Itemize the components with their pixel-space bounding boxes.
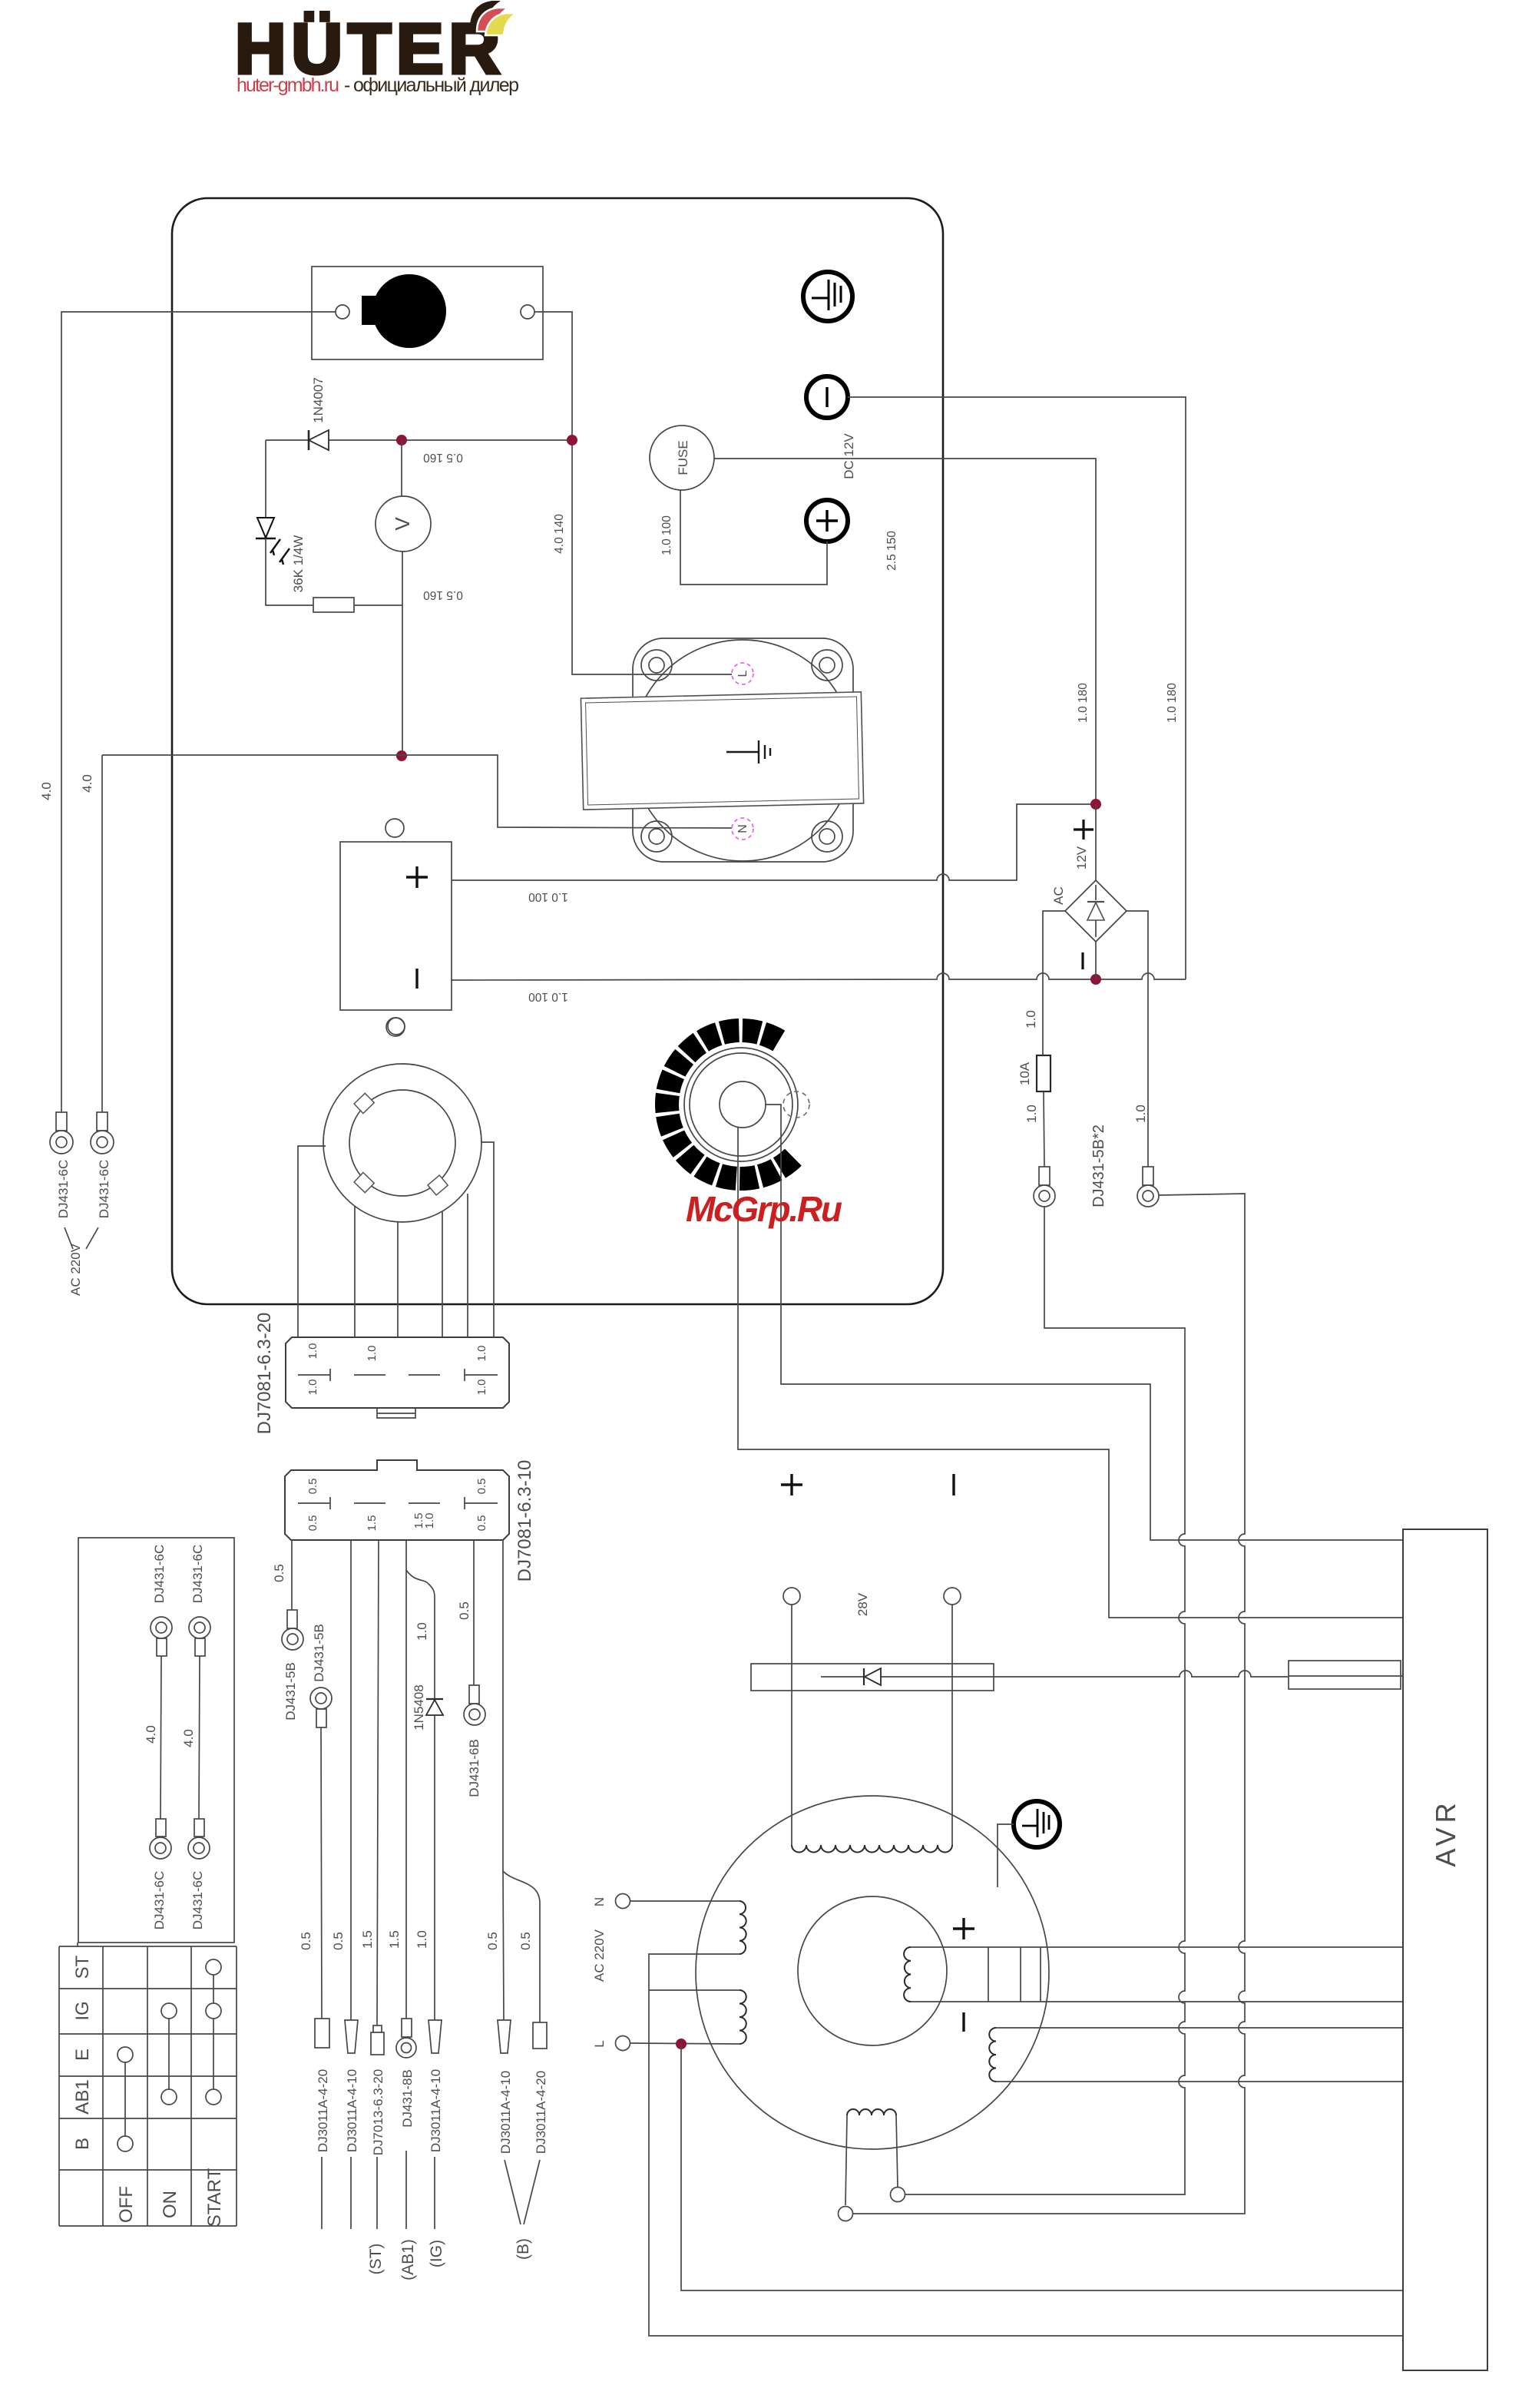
DC socket minus mark bbox=[415, 969, 418, 989]
svg-text:L: L bbox=[592, 2040, 607, 2047]
logo yellow band bbox=[485, 13, 516, 35]
wire breaker pole 1 to AVR bbox=[738, 1128, 1403, 1618]
wire ground to stator bbox=[998, 1824, 1014, 1887]
wire minus terminal right bbox=[848, 397, 1186, 979]
svg-text:1.0: 1.0 bbox=[306, 1380, 319, 1396]
START contact ST bbox=[206, 1959, 221, 1975]
wire junction A to voltmeter bbox=[401, 440, 402, 496]
terminal DJ3011A-4-20 (7) bbox=[533, 2022, 547, 2049]
fuse 10A body bbox=[1037, 1055, 1051, 1091]
OFF contact E bbox=[117, 2047, 133, 2062]
svg-text:10A: 10A bbox=[1017, 1062, 1032, 1085]
AC outlet notch 3 bbox=[428, 1175, 448, 1195]
svg-text:1N5408: 1N5408 bbox=[412, 1684, 426, 1731]
aux winding R1 coil bbox=[989, 2028, 996, 2082]
svg-text:DJ3011A-4-20: DJ3011A-4-20 bbox=[534, 2071, 548, 2154]
breaker dashed circle bbox=[783, 1091, 809, 1118]
terminal DJ3011A-4-20 (1) bbox=[315, 2019, 329, 2048]
svg-text:0.5: 0.5 bbox=[475, 1479, 488, 1495]
capacitor strip body bbox=[751, 1664, 994, 1691]
svg-text:(IG): (IG) bbox=[428, 2240, 445, 2267]
svg-text:0.5: 0.5 bbox=[299, 1932, 313, 1950]
svg-text:1N4007: 1N4007 bbox=[311, 377, 326, 423]
wire cap2 to stator winding bbox=[951, 1605, 953, 1845]
exciter terminal circle left bbox=[839, 2207, 853, 2221]
terminal DJ3011A-4-10 (6) bbox=[498, 2020, 511, 2053]
svg-text:0.5 160: 0.5 160 bbox=[423, 451, 463, 464]
bridge minus mark bbox=[1081, 952, 1084, 969]
leader line 5 bbox=[434, 2157, 435, 2229]
START contact IG bbox=[206, 2003, 221, 2019]
AVR box bbox=[1403, 1529, 1487, 2370]
svg-text:0.5 160: 0.5 160 bbox=[423, 588, 463, 601]
svg-text:4.0 140: 4.0 140 bbox=[553, 514, 566, 554]
svg-text:DJ431-6C: DJ431-6C bbox=[152, 1545, 167, 1604]
breaker inner rim circle bbox=[690, 1053, 792, 1156]
jumper1 bottom ring DJ431-6C bbox=[150, 1819, 171, 1859]
svg-text:ST: ST bbox=[72, 1955, 93, 1979]
ring terminal DJ431-5B 1 bbox=[282, 1610, 303, 1650]
control panel outline bbox=[172, 198, 943, 1304]
bridge diode symbol bbox=[1087, 885, 1104, 937]
connector1 slot labels 1.0 row1 bbox=[306, 1343, 488, 1362]
aux winding L2 coil bbox=[739, 1990, 746, 2044]
connector2 slot labels row2 bbox=[306, 1513, 488, 1532]
bridge rectifier BR1 body bbox=[1065, 880, 1127, 942]
svg-text:L: L bbox=[736, 670, 749, 677]
svg-text:DJ7081-6.3-20: DJ7081-6.3-20 bbox=[254, 1313, 275, 1435]
exciter terminal circle right bbox=[891, 2188, 905, 2202]
svg-text:1.0: 1.0 bbox=[415, 1622, 429, 1641]
bridge plus mark bbox=[1074, 820, 1094, 840]
svg-text:4.0: 4.0 bbox=[181, 1729, 196, 1747]
svg-text:AC 220V: AC 220V bbox=[68, 1243, 83, 1296]
transformer core bar bbox=[581, 692, 863, 810]
aux winding L1 top lead bbox=[630, 1900, 739, 1902]
svg-text:1.0 180: 1.0 180 bbox=[1166, 683, 1179, 723]
logo red band bbox=[477, 8, 508, 31]
svg-text:START: START bbox=[204, 2168, 225, 2227]
leader line 4 bbox=[405, 2151, 407, 2229]
B bracket slashes bbox=[505, 2160, 540, 2224]
svg-text:DJ431-6B: DJ431-6B bbox=[467, 1739, 481, 1797]
svg-text:DJ3011A-4-20: DJ3011A-4-20 bbox=[316, 2069, 330, 2152]
wire conn2 pin2 bbox=[350, 1540, 352, 2020]
LED branch wire bbox=[265, 440, 266, 518]
logo dark flame swoosh bbox=[470, 1, 501, 25]
svg-text:4.0: 4.0 bbox=[80, 774, 94, 793]
diode 1N5408 bbox=[426, 1699, 443, 1715]
svg-text:B: B bbox=[72, 2138, 93, 2150]
AC outlet notch 2 bbox=[354, 1173, 374, 1193]
field diode symbol bbox=[864, 1668, 881, 1685]
resistor R1 36K bbox=[313, 598, 354, 612]
svg-text:2.5 150: 2.5 150 bbox=[885, 531, 898, 571]
svg-text:DJ431-6C: DJ431-6C bbox=[152, 1871, 167, 1930]
exciter left lead bbox=[845, 2115, 847, 2205]
svg-text:V: V bbox=[391, 517, 414, 531]
svg-text:12V: 12V bbox=[1074, 846, 1089, 869]
wire junction C to transformer N bbox=[102, 755, 732, 828]
breaker outer circle bbox=[684, 1048, 798, 1161]
rotor brush bottom lead bbox=[911, 2001, 1403, 2002]
svg-text:DJ431-6C: DJ431-6C bbox=[190, 1545, 205, 1604]
aux winding R1 top lead bbox=[996, 2027, 1403, 2029]
wire ring B down to exciter terminal bbox=[852, 1194, 1245, 2214]
svg-text:0.5: 0.5 bbox=[457, 1601, 471, 1620]
junction dot L2 bbox=[676, 2039, 687, 2049]
ring terminal DJ431-5B A bbox=[1034, 1167, 1055, 1207]
wire branch pin6 to terminal 7 bbox=[503, 1871, 540, 2022]
svg-text:E: E bbox=[72, 2049, 93, 2061]
svg-text:1.0: 1.0 bbox=[1024, 1010, 1038, 1028]
svg-text:DJ3011A-4-10: DJ3011A-4-10 bbox=[345, 2069, 359, 2152]
wire ring2 to terminal B1 bbox=[321, 1727, 322, 2019]
DC socket plus mark bbox=[406, 866, 428, 888]
wire breaker pole 2 to AVR bbox=[766, 1105, 1403, 1540]
ring terminal DJ431-6C (AC 220V line 1) bbox=[50, 1112, 73, 1154]
minus mark above capacitor bbox=[952, 1474, 955, 1495]
aux winding L1 bottom lead bbox=[649, 1954, 1403, 2336]
AC outlet socket inner circle bbox=[349, 1090, 455, 1196]
svg-text:DJ7013-6.3-20: DJ7013-6.3-20 bbox=[371, 2069, 385, 2155]
svg-text:1.0: 1.0 bbox=[1024, 1105, 1039, 1123]
svg-text:AC: AC bbox=[1051, 886, 1066, 905]
wire fuse to ring A bbox=[1044, 1091, 1044, 1167]
ring terminal DJ431-5B B bbox=[1137, 1167, 1159, 1207]
socket lead 2 bbox=[354, 1206, 356, 1337]
wire switch left to AC220V terminal bbox=[61, 312, 336, 1112]
generator ground terminal bbox=[1014, 1801, 1060, 1847]
junction dot C bbox=[396, 750, 407, 761]
bridge AC1 lead to 10A fuse bbox=[1043, 911, 1065, 1055]
connector1 slot labels 1.0 row2 bbox=[306, 1380, 488, 1396]
junction dot A bbox=[396, 435, 407, 445]
svg-text:(AB1): (AB1) bbox=[399, 2239, 417, 2280]
svg-text:1.5: 1.5 bbox=[366, 1515, 379, 1532]
panel ground terminal bbox=[803, 272, 852, 321]
svg-text:0.5: 0.5 bbox=[306, 1479, 319, 1495]
rotor minus mark bbox=[962, 2012, 964, 2032]
svg-text:0.5: 0.5 bbox=[485, 1932, 500, 1950]
bridge minus lead bbox=[1095, 942, 1097, 979]
svg-text:DJ431-6C: DJ431-6C bbox=[56, 1160, 71, 1219]
bridge plus lead bbox=[1095, 804, 1097, 880]
START contact AB1 bbox=[206, 2089, 221, 2105]
jumper2 top ring DJ431-6C bbox=[189, 1617, 210, 1656]
DC socket screw hole bottom bbox=[386, 1018, 405, 1036]
AC outlet notch 1 bbox=[354, 1093, 374, 1113]
ignition switch pin right bbox=[521, 305, 534, 319]
svg-text:AVR: AVR bbox=[1430, 1798, 1461, 1866]
svg-text:36K 1/4W: 36K 1/4W bbox=[291, 535, 306, 593]
jumper1 wire bbox=[160, 1656, 161, 1819]
svg-text:1.0: 1.0 bbox=[423, 1513, 436, 1529]
svg-text:DC 12V: DC 12V bbox=[842, 433, 856, 479]
wire plus terminal to fuse bbox=[680, 490, 827, 585]
svg-text:1.0 100: 1.0 100 bbox=[660, 515, 673, 555]
transformer mount hole TL bbox=[641, 650, 672, 681]
socket lead bracket left bbox=[298, 1146, 326, 1337]
OFF contact B bbox=[117, 2136, 133, 2151]
transformer T1 mounting plate bbox=[633, 638, 853, 862]
DC output socket block bbox=[340, 842, 452, 1010]
transformer ground symbol bbox=[726, 740, 770, 763]
wire conn2 pin5 bbox=[473, 1540, 475, 1685]
svg-text:4.0: 4.0 bbox=[144, 1725, 158, 1744]
node N dashed circle bbox=[732, 818, 753, 840]
ring terminal DJ431-5B 2 bbox=[310, 1688, 332, 1727]
fuse F1 circle bbox=[650, 426, 714, 490]
connector DJ7081-6.3-20 tab bbox=[377, 1408, 415, 1418]
bridge AC2 lead to ring B bbox=[1127, 911, 1148, 1167]
capacitor terminal circle 2 bbox=[944, 1588, 961, 1605]
brush strip right bbox=[1289, 1661, 1403, 1689]
wire branch pin4 S-curve to diode wire bbox=[406, 1570, 435, 1699]
key switch table grid bbox=[59, 1943, 237, 2226]
svg-text:McGrp.Ru: McGrp.Ru bbox=[686, 1189, 842, 1229]
svg-text:0.5: 0.5 bbox=[331, 1932, 346, 1950]
svg-text:huter-gmbh.ru: huter-gmbh.ru bbox=[237, 75, 339, 96]
connector DJ7081-6.3-10 body bbox=[285, 1460, 509, 1540]
wire resistor to voltmeter line bbox=[354, 604, 402, 606]
svg-text:N: N bbox=[592, 1897, 607, 1906]
svg-text:1.0: 1.0 bbox=[366, 1346, 379, 1362]
socket lead 3 bbox=[397, 1222, 399, 1337]
ring terminal DJ431-6C (AC 220V line 2) bbox=[91, 1112, 114, 1154]
svg-text:DJ7081-6.3-10: DJ7081-6.3-10 bbox=[515, 1460, 535, 1582]
svg-text:DJ431-6C: DJ431-6C bbox=[190, 1871, 205, 1930]
wire conn2 pin3 bbox=[377, 1540, 379, 2025]
svg-text:OFF: OFF bbox=[116, 2186, 137, 2223]
wire N line from junction to AC220V terminal 2 bbox=[101, 755, 103, 1112]
rotor winding coil bbox=[904, 1947, 911, 2002]
svg-text:1.0: 1.0 bbox=[475, 1380, 488, 1396]
svg-text:0.5: 0.5 bbox=[272, 1564, 286, 1582]
svg-text:1.0 100: 1.0 100 bbox=[528, 890, 568, 903]
wire junction to AVR bottom bbox=[681, 2044, 1403, 2290]
svg-text:0.5: 0.5 bbox=[306, 1515, 319, 1532]
exciter winding coil bbox=[847, 2109, 896, 2115]
svg-text:DJ431-6C: DJ431-6C bbox=[97, 1160, 111, 1219]
wire fuse to bridge junction bbox=[714, 459, 1096, 804]
svg-text:1.0: 1.0 bbox=[475, 1346, 488, 1362]
generator stator circle bbox=[696, 1796, 1049, 2149]
wire indicator branch top bbox=[266, 439, 572, 441]
svg-text:FUSE: FUSE bbox=[676, 440, 690, 475]
svg-text:DJ431-8B: DJ431-8B bbox=[400, 2069, 415, 2128]
svg-text:1.0: 1.0 bbox=[306, 1343, 319, 1360]
jumper2 bottom ring DJ431-6C bbox=[188, 1819, 210, 1859]
jumper2 wire bbox=[199, 1656, 200, 1819]
terminal DJ3011A-4-10 (2) bbox=[345, 2020, 358, 2053]
svg-text:DJ3011A-4-10: DJ3011A-4-10 bbox=[428, 2069, 443, 2152]
jumper box bbox=[78, 1538, 234, 1943]
wire DC plus to bridge junction bbox=[452, 804, 1096, 880]
socket lead bracket right bbox=[481, 1142, 494, 1337]
OFF contact link bbox=[124, 2062, 126, 2136]
aux winding R1 bottom lead bbox=[996, 2081, 1403, 2082]
wire voltmeter bottom to junction C bbox=[402, 551, 403, 756]
junction dot bridge plus bbox=[1090, 799, 1101, 810]
transformer mount hole BL bbox=[641, 821, 672, 852]
svg-text:N: N bbox=[736, 824, 749, 833]
terminal DJ3011A-4-10 (5) bbox=[428, 2020, 442, 2053]
svg-text:AC 220V: AC 220V bbox=[592, 1929, 607, 1982]
junction dot bridge minus bbox=[1090, 974, 1101, 985]
connector2 slot labels row1 bbox=[306, 1479, 488, 1495]
junction dot B bbox=[567, 435, 577, 445]
svg-text:1.0: 1.0 bbox=[1133, 1105, 1148, 1123]
leader line 3 bbox=[376, 2157, 378, 2229]
ignition switch S1 body bbox=[312, 267, 543, 359]
svg-text:1.5: 1.5 bbox=[360, 1930, 375, 1949]
circuit breaker segmented ring bbox=[655, 1019, 802, 1191]
capacitor terminal circle 1 bbox=[783, 1588, 800, 1605]
ignition switch knob bbox=[362, 274, 446, 348]
AC outlet socket outer circle bbox=[323, 1064, 481, 1222]
LED D2 bbox=[256, 518, 290, 565]
svg-text:DJ431-5B: DJ431-5B bbox=[312, 1624, 326, 1682]
jumper1 top ring DJ431-6C bbox=[151, 1617, 172, 1656]
stator main winding bbox=[792, 1845, 952, 1853]
DC socket screw hole top bbox=[385, 819, 404, 837]
ring terminal DJ431-6B bbox=[464, 1685, 485, 1725]
aux winding L1 coil bbox=[739, 1901, 746, 1954]
svg-text:ON: ON bbox=[160, 2191, 180, 2218]
ON contact AB1 bbox=[161, 2089, 177, 2105]
svg-text:4.0: 4.0 bbox=[39, 782, 54, 800]
svg-text:(ST): (ST) bbox=[367, 2244, 385, 2275]
terminal circle L bbox=[616, 2036, 630, 2051]
svg-text:AB1: AB1 bbox=[72, 2079, 93, 2114]
svg-text:IG: IG bbox=[72, 2001, 93, 2020]
socket lead 5 bbox=[467, 1194, 468, 1337]
svg-text:0.5: 0.5 bbox=[518, 1932, 533, 1950]
svg-text:1.0 100: 1.0 100 bbox=[528, 990, 568, 1003]
connector1 slot dashes bbox=[298, 1369, 498, 1381]
wire LED to resistor bbox=[266, 538, 313, 605]
svg-text:1.0: 1.0 bbox=[415, 1930, 429, 1949]
rotor brush top lead bbox=[911, 1946, 1403, 1948]
transformer mount hole BR bbox=[812, 821, 842, 852]
exciter right lead bbox=[896, 2115, 898, 2187]
ignition switch pin left bbox=[336, 305, 349, 319]
svg-text:28V: 28V bbox=[855, 1592, 870, 1616]
wire DC minus to bridge minus rail bbox=[452, 973, 1186, 980]
transformer mount hole TR bbox=[812, 650, 842, 681]
svg-text:- официальный дилер: - официальный дилер bbox=[344, 75, 519, 96]
svg-text:DJ431-5B*2: DJ431-5B*2 bbox=[1090, 1125, 1107, 1207]
ring terminal DJ431-8B (4) bbox=[396, 2019, 416, 2058]
wire cap1 to stator winding bbox=[791, 1605, 792, 1845]
plus mark above capacitor bbox=[781, 1474, 802, 1495]
START contact link bbox=[213, 1975, 214, 2089]
terminal DJ7013-6.3-20 (3) bbox=[371, 2025, 384, 2055]
wire conn2 pin4 bbox=[405, 1540, 407, 2019]
DC minus terminal bbox=[806, 376, 848, 418]
diode D1 1N4007 bbox=[309, 430, 329, 450]
wire diode to terminal 5 bbox=[434, 1715, 435, 2020]
leader line 2 bbox=[350, 2157, 352, 2229]
connector2 slot dashes bbox=[298, 1497, 498, 1509]
generator rotor circle bbox=[798, 1896, 947, 2045]
svg-text:1.5: 1.5 bbox=[387, 1930, 402, 1949]
ON contact link bbox=[168, 2019, 170, 2089]
transformer body circle bbox=[632, 640, 853, 861]
socket lead 4 bbox=[442, 1211, 443, 1337]
connector DJ7081-6.3-20 body bbox=[286, 1337, 509, 1408]
rotor plus mark bbox=[953, 1918, 974, 1939]
voltmeter V1 bbox=[376, 496, 431, 551]
node L dashed circle bbox=[732, 663, 753, 684]
ON contact IG bbox=[161, 2003, 177, 2019]
wire conn2 pin6 bbox=[503, 1540, 504, 2020]
svg-text:DJ3011A-4-10: DJ3011A-4-10 bbox=[498, 2071, 513, 2154]
aux winding L2 bottom lead bbox=[630, 2043, 739, 2044]
field diode lead line bbox=[821, 1671, 1289, 1677]
AC outlet screw hole bbox=[388, 1018, 405, 1035]
breaker hub circle bbox=[720, 1081, 766, 1128]
svg-text:(B): (B) bbox=[515, 2238, 532, 2260]
wire conn2 pin1 bbox=[291, 1540, 293, 1610]
wire ring A down to exciter terminal bbox=[905, 1207, 1185, 2194]
svg-text:1.0 180: 1.0 180 bbox=[1077, 683, 1090, 723]
DC plus terminal bbox=[806, 500, 848, 542]
svg-text:DJ431-5B: DJ431-5B bbox=[283, 1662, 298, 1721]
AC 220V arrow slashes bbox=[65, 1227, 98, 1249]
svg-text:0.5: 0.5 bbox=[475, 1515, 488, 1532]
leader line 1 bbox=[321, 2157, 323, 2229]
terminal circle N bbox=[616, 1894, 630, 1909]
brush block bbox=[988, 1947, 1041, 2002]
wire switch right to transformer L bbox=[534, 312, 732, 674]
aux winding L2 top lead bbox=[649, 1989, 739, 1991]
